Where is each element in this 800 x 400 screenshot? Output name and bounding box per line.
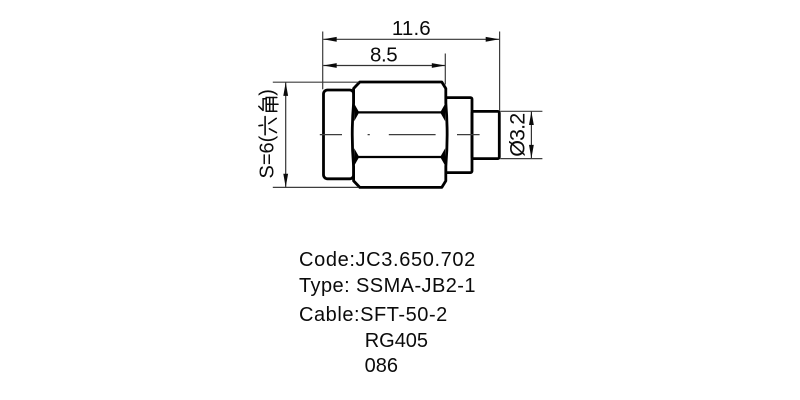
dimension 8.5: dimension line xyxy=(323,65,445,67)
dimension 11.6: arrowheads xyxy=(323,37,499,42)
small cylinder (cable entry, Ø3.2) xyxy=(472,111,499,158)
svg-text:S=6(: S=6( xyxy=(257,135,279,178)
glyph 六 xyxy=(259,117,276,135)
dimension S=6(六角): rotated label xyxy=(257,89,279,178)
dimension 8.5: arrowheads xyxy=(323,63,445,68)
dimension Ø3.2: arrowheads xyxy=(529,112,534,159)
svg-text:): ) xyxy=(257,89,279,96)
svg-text:Cable:SFT-50-2: Cable:SFT-50-2 xyxy=(299,304,447,326)
svg-text:11.6: 11.6 xyxy=(392,17,431,40)
svg-text:086: 086 xyxy=(365,355,398,377)
dimension 11.6: extension lines xyxy=(323,32,500,111)
dimension 8.5: extension line xyxy=(444,54,446,85)
hex nut body xyxy=(352,82,447,187)
dimension 11.6: dimension line xyxy=(323,38,499,40)
left plug body rectangle xyxy=(324,90,354,179)
svg-text:Code:JC3.650.702: Code:JC3.650.702 xyxy=(299,249,475,271)
hex flat line upper xyxy=(357,111,443,113)
dimension S=6: dimension line xyxy=(285,82,287,187)
svg-text:Ø3.2: Ø3.2 xyxy=(506,113,530,157)
svg-text:RG405: RG405 xyxy=(365,330,428,352)
hex corner fillet marks xyxy=(354,104,445,166)
svg-text:8.5: 8.5 xyxy=(370,44,398,67)
dimension Ø3.2: rotated label xyxy=(506,113,530,157)
glyph 角 xyxy=(259,98,278,112)
dimension Ø3.2: extension lines xyxy=(500,111,542,158)
svg-text:Type: SSMA-JB2-1: Type: SSMA-JB2-1 xyxy=(299,275,476,297)
dimension Ø3.2: dimension line xyxy=(530,112,532,159)
dimension S=6 hex flats: extension lines xyxy=(273,82,359,187)
step flange (right of hex) xyxy=(446,98,472,173)
dimension S=6: arrowheads xyxy=(283,82,288,187)
centerline (dash-dot axis) xyxy=(320,134,480,136)
hex flat line lower xyxy=(357,156,443,158)
